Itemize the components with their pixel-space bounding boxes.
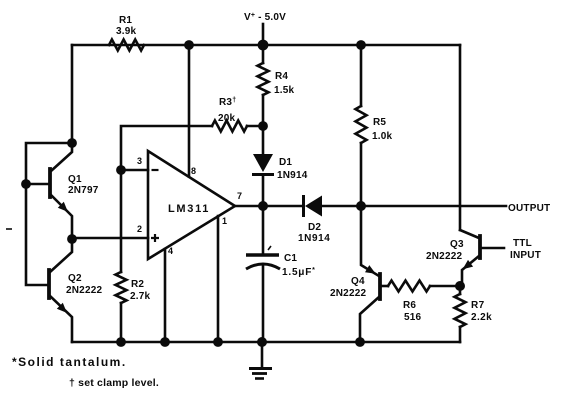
svg-text:OUTPUT: OUTPUT bbox=[508, 203, 550, 214]
svg-text:3: 3 bbox=[137, 156, 142, 166]
svg-text:7: 7 bbox=[237, 191, 242, 201]
capacitor C1 polarity tick bbox=[268, 246, 271, 250]
svg-text:2N2222: 2N2222 bbox=[66, 285, 102, 296]
transistor Q4 2N2222 bbox=[378, 274, 382, 299]
node Q4 lower junction on ground rail bbox=[355, 337, 365, 347]
node pin-4 ground junction bbox=[160, 337, 170, 347]
svg-text:R4: R4 bbox=[275, 71, 288, 82]
svg-text:2N2222: 2N2222 bbox=[426, 251, 462, 262]
svg-text:4: 4 bbox=[168, 246, 173, 256]
op-amp U1 LM311 comparator bbox=[148, 151, 235, 259]
node Q1 emitter / Q2 collector / pin-2 junction bbox=[67, 234, 77, 244]
op-amp inverting input marker bbox=[152, 169, 159, 171]
svg-text:1N914: 1N914 bbox=[277, 170, 308, 181]
svg-text:R7: R7 bbox=[471, 300, 485, 311]
svg-text:INPUT: INPUT bbox=[510, 250, 541, 261]
resistor R5 1.0k bbox=[360, 45, 363, 106]
svg-text:C1: C1 bbox=[284, 253, 297, 264]
svg-text:2: 2 bbox=[137, 224, 142, 234]
svg-text:2.7k: 2.7k bbox=[130, 291, 151, 302]
svg-text:Q2: Q2 bbox=[68, 273, 82, 284]
transistor Q1 2N797 bbox=[48, 169, 52, 197]
resistor R7 2.2k bbox=[459, 286, 462, 294]
transistor Q3 2N2222 bbox=[478, 236, 482, 258]
svg-text:† set clamp level.: † set clamp level. bbox=[69, 377, 159, 389]
svg-text:R2: R2 bbox=[131, 279, 144, 290]
node R6 / R7 / Q3 emitter junction bbox=[455, 281, 465, 291]
svg-text:1N914: 1N914 bbox=[298, 233, 330, 244]
wire pin 3 lead bbox=[121, 169, 148, 172]
diode D1 1N914 bbox=[262, 126, 265, 154]
wire op-amp output to OUTPUT terminal bbox=[235, 205, 302, 208]
svg-text:1.5μF*: 1.5μF* bbox=[282, 267, 316, 278]
node R5 / Q4 emitter junction on output line bbox=[356, 201, 366, 211]
svg-text:8: 8 bbox=[191, 166, 196, 176]
svg-text:R1: R1 bbox=[119, 15, 132, 26]
resistor R4 1.5k bbox=[262, 45, 265, 63]
wire pin 4 line to ground rail bbox=[164, 249, 167, 342]
svg-text:516: 516 bbox=[404, 312, 422, 323]
wire pin 8 line from rail to op-amp top edge bbox=[188, 45, 191, 177]
transistor Q2 2N2222 bbox=[47, 270, 51, 298]
wire left column from top rail down to Q1 collector node bbox=[71, 45, 74, 143]
svg-text:LM311: LM311 bbox=[168, 203, 210, 215]
wire pin 1 line to ground rail bbox=[217, 216, 220, 342]
resistor R2 2.7k bbox=[116, 272, 127, 303]
svg-text:20k: 20k bbox=[218, 113, 236, 124]
node R4 / R3 / D1 junction bbox=[258, 121, 268, 131]
svg-text:1.5k: 1.5k bbox=[274, 85, 295, 96]
diode D2 1N914 bbox=[302, 195, 305, 217]
resistor R3 20k (feedback, sets clamp) bbox=[212, 121, 247, 132]
wire base bracket: top run, left vertical, bottom run to Q2 base bbox=[26, 143, 72, 285]
node top-left junction (R1 left / Q1 collector / base bracket) bbox=[67, 138, 77, 148]
node R5 top junction on rail bbox=[356, 40, 366, 50]
node V+ junction on rail bbox=[258, 40, 269, 51]
svg-text:R5: R5 bbox=[373, 117, 386, 128]
svg-text:2N2222: 2N2222 bbox=[330, 288, 366, 299]
stray mark left margin bbox=[6, 228, 12, 230]
ground symbol bbox=[261, 342, 264, 367]
wire Q1 base lead bbox=[26, 183, 50, 186]
svg-text:3.9k: 3.9k bbox=[116, 26, 137, 37]
wire top supply rail bbox=[72, 44, 460, 47]
svg-text:D2: D2 bbox=[308, 222, 321, 233]
capacitor C1 1.5uF solid tantalum bbox=[262, 206, 265, 253]
wire pin 2 lead from Q1/Q2 node bbox=[72, 237, 148, 240]
svg-text:2.2k: 2.2k bbox=[471, 312, 492, 323]
wire right column V+ rail down to Q3 collector bbox=[459, 45, 462, 230]
node R2 ground junction bbox=[116, 337, 126, 347]
resistor R6 516 bbox=[388, 281, 430, 292]
node pin-8 rail junction bbox=[184, 40, 194, 50]
svg-text:Q3: Q3 bbox=[450, 239, 464, 250]
svg-text:1.0k: 1.0k bbox=[372, 131, 393, 142]
svg-text:*Solid tantalum.: *Solid tantalum. bbox=[12, 355, 127, 369]
svg-text:Q4: Q4 bbox=[351, 276, 365, 287]
wire TTL input lead (Q3 base) bbox=[481, 247, 504, 250]
node pin-1 ground junction bbox=[213, 337, 223, 347]
resistor R1 3.9k bbox=[109, 40, 144, 51]
wire R2 / pin-3 column with R3 feedback run bbox=[121, 126, 212, 170]
svg-text:2N797: 2N797 bbox=[68, 185, 99, 196]
svg-text:R6: R6 bbox=[403, 300, 416, 311]
node C1 / ground-symbol junction bbox=[257, 337, 267, 347]
svg-text:D1: D1 bbox=[279, 157, 292, 168]
op-amp non-inverting input marker bbox=[151, 234, 159, 242]
node pin-3 junction bbox=[116, 165, 126, 175]
wire ground rail bbox=[72, 341, 460, 344]
node Q1 base junction on bracket bbox=[21, 179, 31, 189]
power V+ 5.0V terminal bbox=[262, 24, 265, 45]
node output summing junction bbox=[258, 201, 268, 211]
svg-text:1: 1 bbox=[222, 216, 227, 226]
svg-text:Q1: Q1 bbox=[68, 174, 82, 185]
svg-text:V+ - 5.0V: V+ - 5.0V bbox=[244, 12, 286, 23]
svg-text:TTL: TTL bbox=[513, 238, 532, 249]
